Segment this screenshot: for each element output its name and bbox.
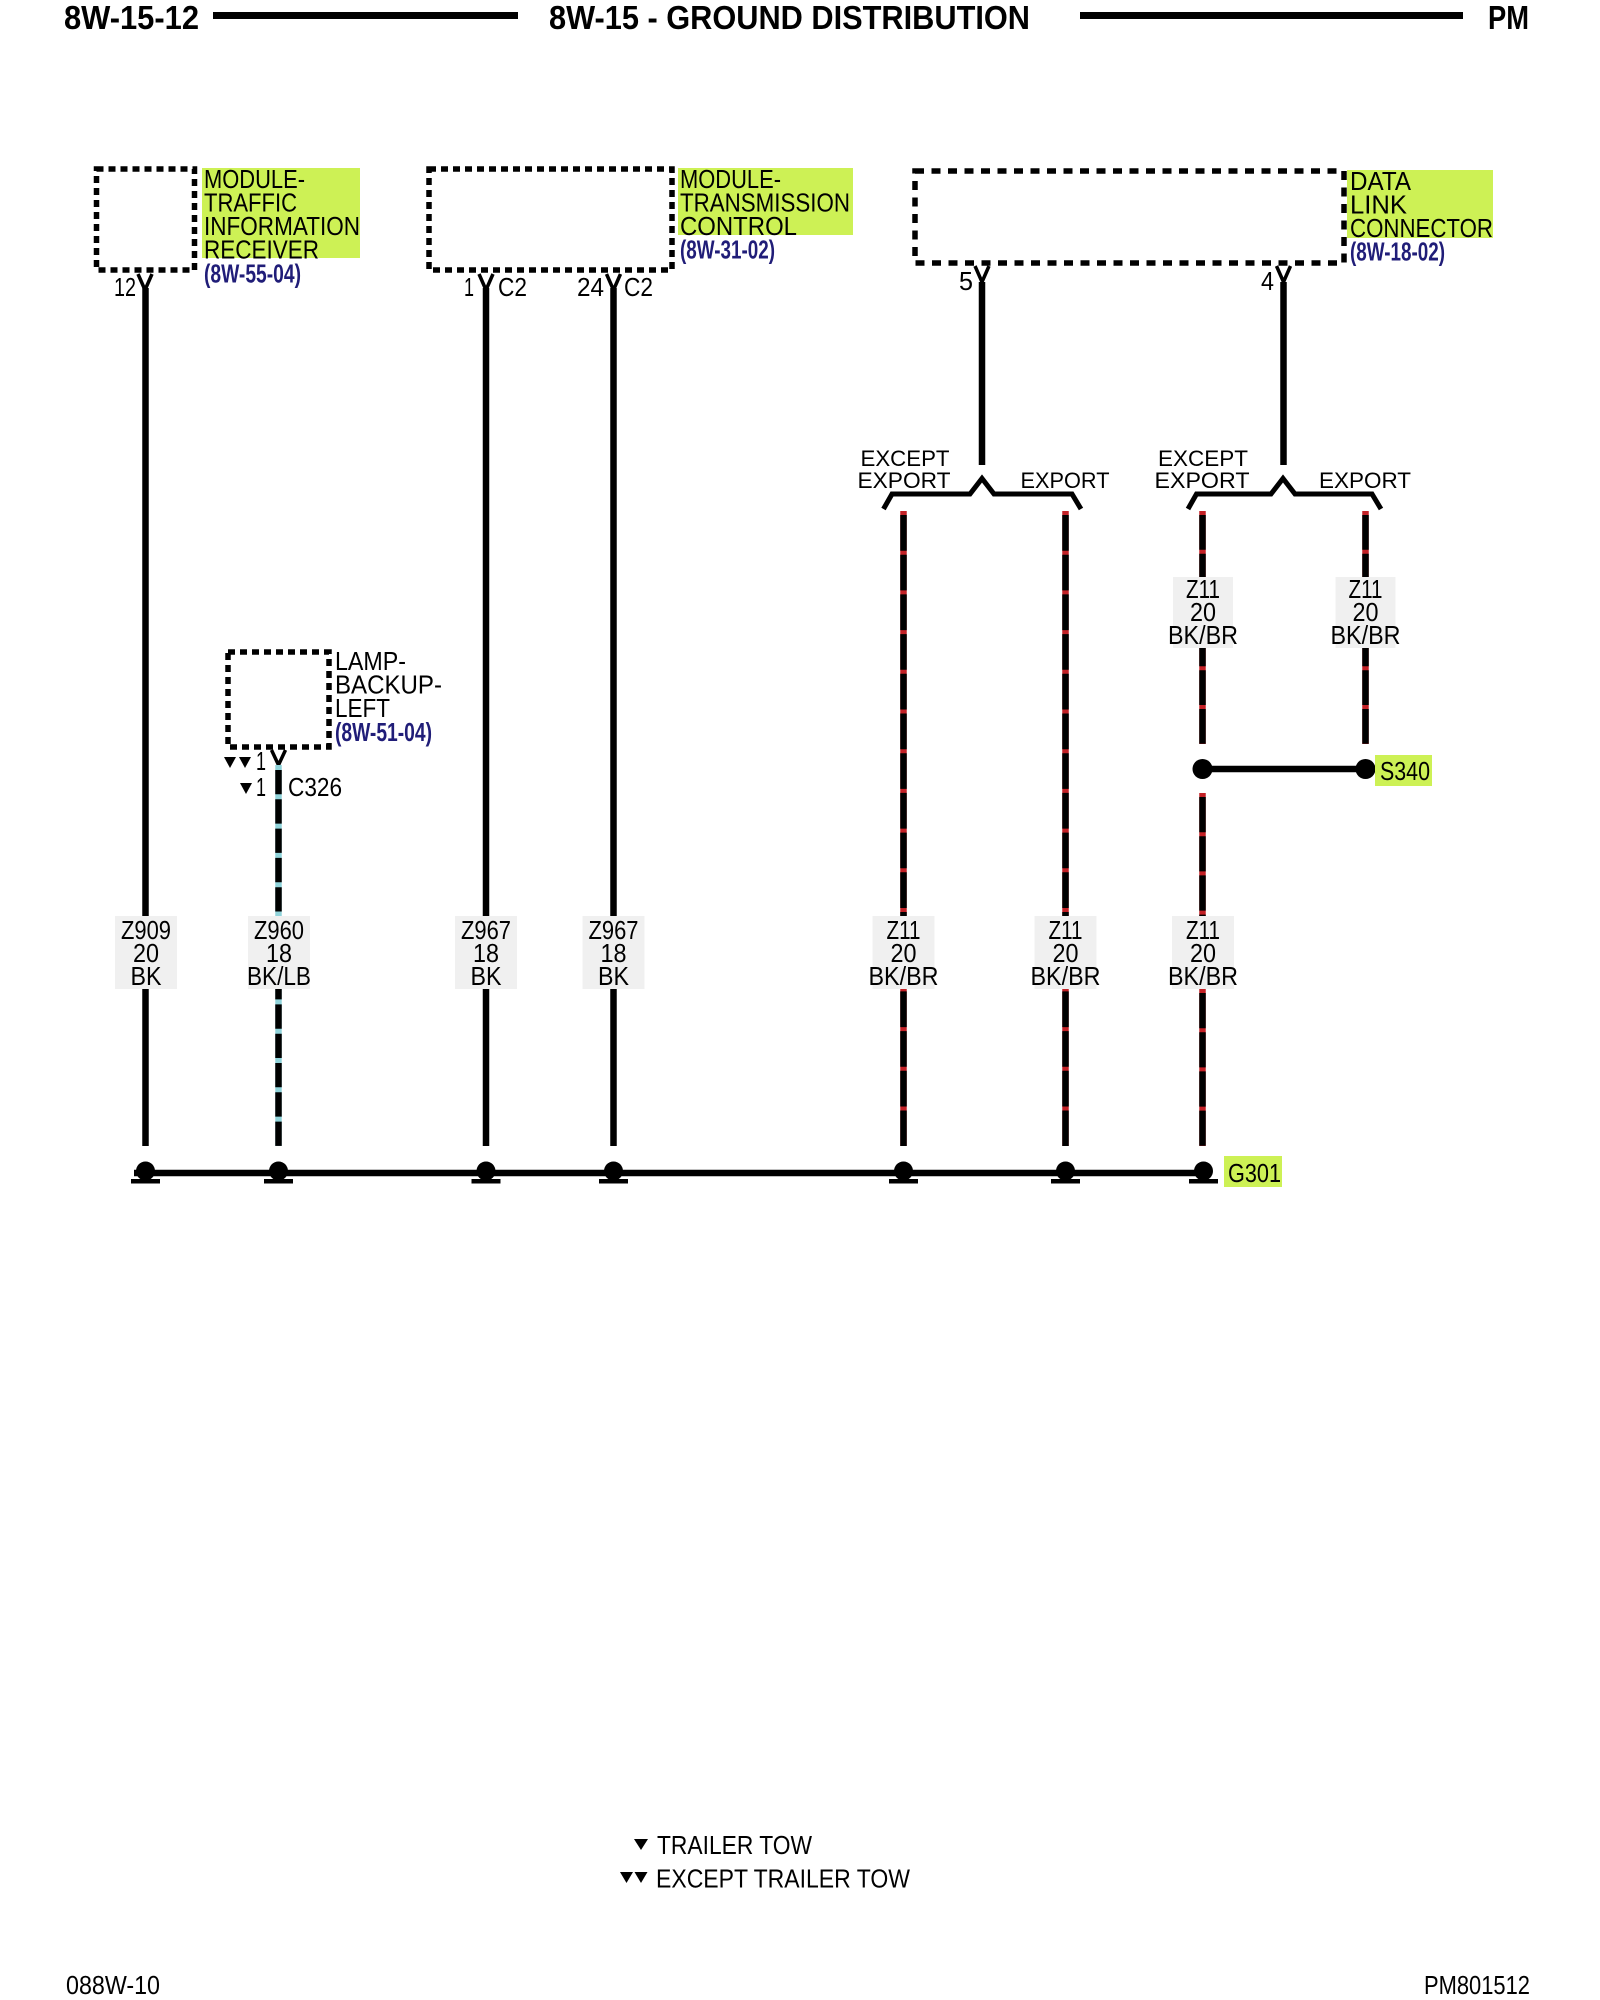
svg-text:EXPORT: EXPORT bbox=[1155, 468, 1250, 493]
svg-text:24: 24 bbox=[577, 272, 604, 302]
wire Z11 20 BK/BR (pin5 export branch to G301) bbox=[1062, 511, 1069, 1146]
junction dot wire Z11 (x903) bbox=[894, 1162, 913, 1181]
pin 24 connector Y symbol bbox=[607, 274, 621, 290]
connector box: MODULE-TRAFFIC INFORMATION RECEIVER bbox=[97, 169, 195, 270]
header rule left bbox=[213, 12, 518, 19]
svg-text:G301: G301 bbox=[1228, 1158, 1281, 1188]
svg-text:BK/BR: BK/BR bbox=[1331, 620, 1401, 650]
svg-text:12: 12 bbox=[114, 272, 136, 302]
svg-text:C2: C2 bbox=[624, 272, 653, 302]
highlight MODULE-TRANSMISSION CONTROL bbox=[678, 168, 853, 235]
svg-text:EXPORT: EXPORT bbox=[1021, 468, 1110, 493]
svg-text:8W-15-12: 8W-15-12 bbox=[64, 0, 199, 36]
legend marker except trailer tow bbox=[620, 1872, 633, 1883]
wire feed from DLC pin 4 bbox=[1280, 282, 1287, 465]
wire feed from DLC pin 5 bbox=[979, 282, 986, 465]
junction dot wire Z909 bbox=[136, 1162, 155, 1181]
wire label Z11 20 BK/BR (x903) bbox=[873, 916, 935, 989]
svg-text:EXCEPT TRAILER TOW: EXCEPT TRAILER TOW bbox=[656, 1864, 910, 1894]
marker trailer-tow triangle, pin 1 row 2 bbox=[240, 783, 252, 794]
pin 5 connector Y symbol bbox=[975, 266, 989, 282]
wire Z11 20 BK/BR (pin4 export branch to S340) bbox=[1362, 511, 1369, 744]
branch option brace (pin 4) bbox=[1188, 479, 1381, 510]
wire Z909 20 BK (pin 12 to G301) bbox=[142, 288, 149, 1146]
svg-text:TRAILER TOW: TRAILER TOW bbox=[657, 1830, 812, 1860]
pin 4 connector Y symbol bbox=[1277, 266, 1291, 282]
header rule right bbox=[1080, 12, 1463, 19]
svg-text:(8W-55-04): (8W-55-04) bbox=[204, 259, 301, 289]
svg-text:BK: BK bbox=[598, 961, 630, 991]
svg-text:S340: S340 bbox=[1380, 756, 1430, 786]
highlight DATA LINK CONNECTOR bbox=[1347, 170, 1493, 238]
junction dot wire Z967 (x486) bbox=[477, 1162, 496, 1181]
connector box: DATA LINK CONNECTOR bbox=[915, 171, 1344, 263]
svg-text:1: 1 bbox=[256, 772, 266, 802]
svg-text:C326: C326 bbox=[288, 772, 342, 802]
wire label Z11 20 BK/BR (x1203) bbox=[1172, 916, 1234, 989]
svg-text:8W-15 - GROUND DISTRIBUTION: 8W-15 - GROUND DISTRIBUTION bbox=[549, 0, 1030, 36]
svg-text:(8W-51-04): (8W-51-04) bbox=[335, 717, 432, 747]
svg-text:(8W-18-02): (8W-18-02) bbox=[1350, 237, 1445, 267]
wire Z11 20 BK/BR (pin4 except-export branch through S340 to G301) bbox=[1199, 511, 1206, 744]
pin 1 connector Y symbol (lamp) bbox=[272, 750, 286, 765]
wire label Z11 20 BK/BR (x1065) bbox=[1035, 916, 1097, 989]
highlight S340 bbox=[1375, 755, 1432, 786]
wire label Z967 18 BK (x486) bbox=[455, 916, 517, 989]
svg-text:BK/BR: BK/BR bbox=[1168, 961, 1238, 991]
svg-text:088W-10: 088W-10 bbox=[66, 1970, 160, 2000]
wire label Z11 20 BK/BR (upper, x1203) bbox=[1173, 577, 1233, 648]
svg-text:4: 4 bbox=[1261, 266, 1274, 296]
svg-text:BK/BR: BK/BR bbox=[869, 961, 939, 991]
wire label Z960 18 BK/LB bbox=[248, 916, 310, 989]
junction dot wire Z11 (x1203) bbox=[1194, 1162, 1213, 1181]
svg-text:BK/BR: BK/BR bbox=[1168, 620, 1238, 650]
wire label Z909 20 BK bbox=[115, 916, 177, 989]
svg-text:5: 5 bbox=[959, 266, 973, 296]
wire Z960 18 BK/LB (lamp pin 1 to G301) bbox=[275, 765, 282, 1146]
connector box: LAMP-BACKUP-LEFT bbox=[228, 652, 329, 747]
ground bus G301 bbox=[134, 1170, 1206, 1177]
svg-text:(8W-31-02): (8W-31-02) bbox=[680, 235, 775, 265]
svg-text:BK/BR: BK/BR bbox=[1031, 961, 1101, 991]
wire Z967 18 BK (pin 1 C2 to G301) bbox=[483, 288, 490, 1146]
pin 1 connector Y symbol bbox=[479, 274, 493, 290]
svg-text:C2: C2 bbox=[498, 272, 527, 302]
svg-text:PM: PM bbox=[1488, 0, 1529, 36]
svg-text:EXPORT: EXPORT bbox=[858, 468, 951, 493]
legend marker trailer tow bbox=[634, 1839, 648, 1850]
wire label Z967 18 BK (x613) bbox=[583, 916, 645, 989]
junction dot wire Z11 (x1065) bbox=[1056, 1162, 1075, 1181]
svg-text:EXPORT: EXPORT bbox=[1319, 468, 1411, 493]
highlight G301 bbox=[1224, 1156, 1282, 1187]
highlight MODULE-TRAFFIC INFORMATION RECEIVER bbox=[202, 168, 360, 258]
junction dot wire Z960 bbox=[269, 1162, 288, 1181]
wire label Z11 20 BK/BR (upper, x1365) bbox=[1336, 577, 1396, 648]
connector box: MODULE-TRANSMISSION CONTROL bbox=[429, 169, 672, 270]
svg-text:BK/LB: BK/LB bbox=[247, 961, 311, 991]
wire Z967 18 BK (pin 24 C2 to G301) bbox=[610, 288, 617, 1146]
splice S340 bbox=[1203, 766, 1366, 773]
svg-text:1: 1 bbox=[464, 272, 474, 302]
marker trailer-tow triangles, pin 1 row bbox=[224, 757, 236, 768]
junction dot wire Z967 (x613) bbox=[604, 1162, 623, 1181]
svg-text:PM801512: PM801512 bbox=[1424, 1970, 1530, 2000]
svg-text:BK: BK bbox=[471, 961, 503, 991]
branch option brace (pin 5) bbox=[884, 479, 1082, 510]
wire Z11 20 BK/BR (pin5 except-export branch to G301) bbox=[900, 511, 907, 1146]
pin 12 connector Y symbol bbox=[138, 274, 152, 290]
svg-text:BK: BK bbox=[131, 961, 163, 991]
